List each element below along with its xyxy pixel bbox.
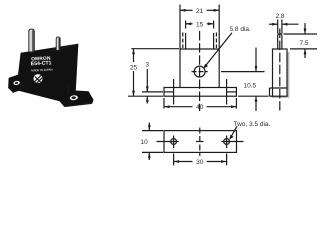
svg-text:30: 30 xyxy=(196,159,204,166)
svg-text:10: 10 xyxy=(141,139,149,146)
svg-text:Two, 3.5 dia.: Two, 3.5 dia. xyxy=(234,121,271,128)
svg-text:2.8: 2.8 xyxy=(275,13,284,20)
svg-text:15: 15 xyxy=(196,21,204,28)
svg-text:10.5: 10.5 xyxy=(244,83,257,90)
svg-text:E54-CT1: E54-CT1 xyxy=(31,60,52,67)
svg-text:21: 21 xyxy=(196,8,204,15)
svg-text:7.5: 7.5 xyxy=(299,40,308,47)
svg-text:5.8 dia.: 5.8 dia. xyxy=(230,26,252,33)
svg-text:40: 40 xyxy=(196,104,204,111)
svg-text:3: 3 xyxy=(145,61,149,68)
svg-text:25: 25 xyxy=(130,65,138,72)
